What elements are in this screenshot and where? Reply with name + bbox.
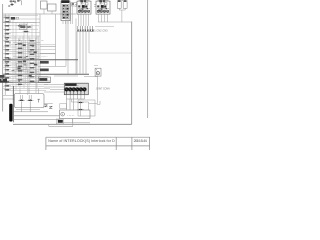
svg-text:▪▪ ▪▪▪ ▪: ▪▪ ▪▪▪ ▪ [41,56,48,59]
svg-text:JOINT CONN: JOINT CONN [96,89,110,91]
svg-text:▪ ▪ ▪ ▪ ▪: ▪ ▪ ▪ ▪ ▪ [68,114,75,117]
svg-text:2019-5-44: 2019-5-44 [134,139,147,143]
svg-text:▪▪ ▪▪: ▪▪ ▪▪ [94,65,98,67]
svg-text:▪▪▪: ▪▪▪ [41,40,44,42]
svg-text:Name of INTERLOCK(S) Interlock: Name of INTERLOCK(S) Interlock for D [48,139,115,143]
svg-text:CN1 CN2 CN3: CN1 CN2 CN3 [91,28,109,32]
